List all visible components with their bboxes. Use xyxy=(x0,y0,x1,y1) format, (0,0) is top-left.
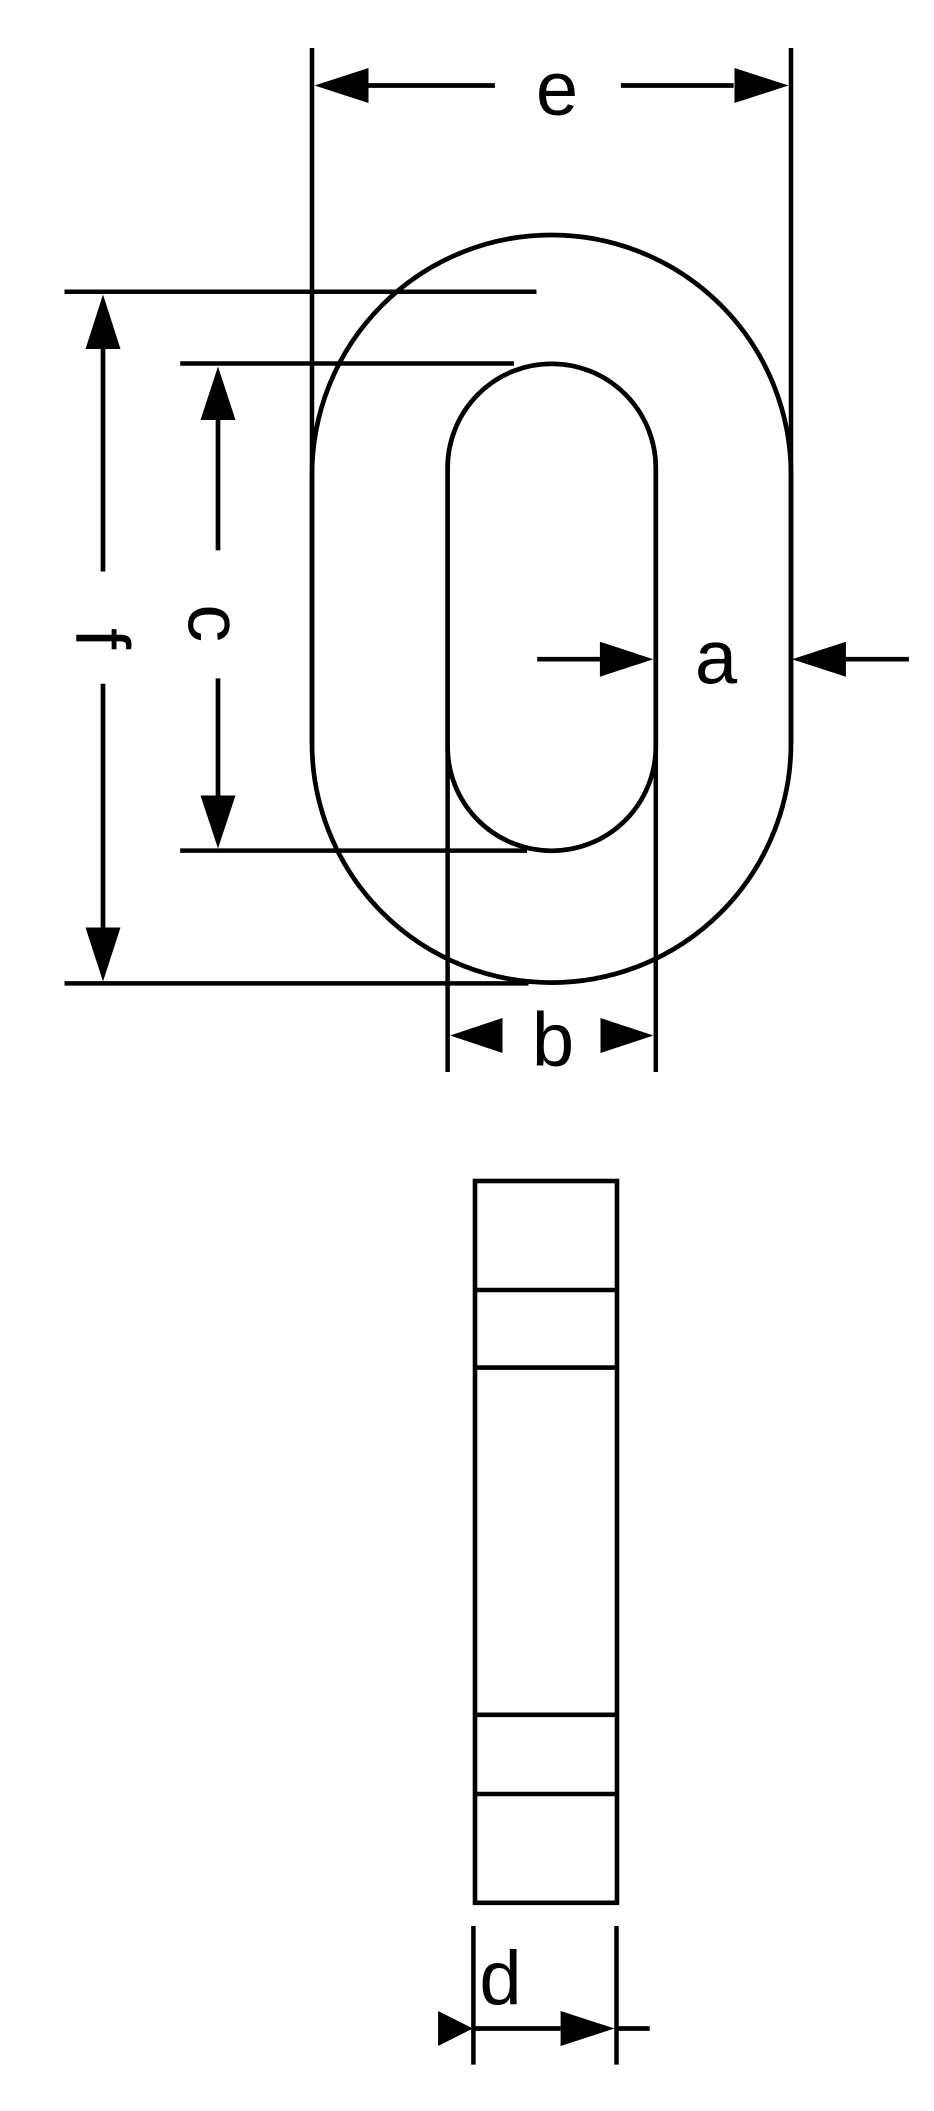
dimension f: bottom arrow xyxy=(86,928,121,982)
dimension a: left shaft xyxy=(537,657,600,662)
dimension a: left arrow (points right at inner wall) xyxy=(600,642,653,677)
dimension e: left extension line xyxy=(310,48,315,744)
svg-text:d: d xyxy=(479,1936,521,2021)
inner link hole outline (front view stadium) xyxy=(448,364,656,851)
outer link outline (front view stadium) xyxy=(312,235,791,983)
side view seam line 2 xyxy=(475,1365,617,1370)
dimension d: right arrow (points right) xyxy=(561,2011,615,2046)
dimension f: top extension line xyxy=(65,289,537,294)
side view seam line 1 xyxy=(475,1288,617,1293)
dimension f: top arrow xyxy=(86,295,121,350)
dimension a: right shaft xyxy=(846,657,909,662)
side view seam line 3 xyxy=(475,1713,617,1718)
svg-text:c: c xyxy=(172,604,257,642)
svg-text:f: f xyxy=(60,628,145,650)
side view seam line 4 xyxy=(475,1792,617,1797)
dimension d: outside-left arrow (points right) xyxy=(438,2011,473,2046)
dimension c: bottom arrow xyxy=(201,796,236,849)
dimension f: lower shaft xyxy=(101,684,106,928)
svg-text:a: a xyxy=(695,616,738,701)
dimension d: right extension line xyxy=(614,1926,619,2065)
dimension c: top arrow xyxy=(201,367,236,421)
svg-text:b: b xyxy=(532,998,574,1083)
dimension e: right shaft xyxy=(621,83,734,88)
dimension c: lower shaft xyxy=(216,678,221,795)
dimension b: right extension line xyxy=(654,746,659,1072)
dimension d: middle shaft xyxy=(473,2026,560,2031)
dimension e: left arrow xyxy=(315,68,369,103)
dimension b: left arrow (points left) xyxy=(450,1018,503,1053)
dimension c: bottom extension line xyxy=(180,848,527,853)
dimension e: right arrow xyxy=(735,68,789,103)
dimension e: right extension line xyxy=(789,48,794,744)
dimension c: top extension line xyxy=(180,361,514,366)
dimension f: bottom extension line xyxy=(65,981,529,986)
side view outline rectangle xyxy=(475,1181,617,1903)
dimension f: upper shaft xyxy=(101,349,106,572)
svg-text:e: e xyxy=(536,47,578,132)
dimension b: right arrow (points right) xyxy=(601,1018,654,1053)
dimension e: left shaft xyxy=(368,83,495,88)
dimension b: left extension line xyxy=(445,746,450,1072)
dimension d: right tail shaft xyxy=(618,2026,649,2031)
dimension d: left extension line xyxy=(471,1926,476,2065)
dimension c: upper shaft xyxy=(216,420,221,550)
dimension a: right arrow (points left at outer wall) xyxy=(792,642,846,677)
